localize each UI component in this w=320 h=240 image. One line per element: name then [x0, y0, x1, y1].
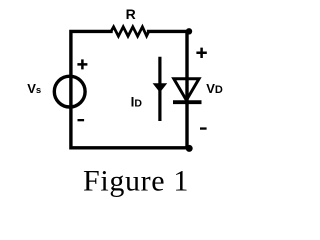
node junction dot bottom-right — [186, 145, 193, 152]
svg-text:ID: ID — [131, 95, 143, 110]
node junction dot top-right — [186, 28, 192, 34]
voltage source Vs circle — [54, 76, 85, 107]
current arrow ID line — [158, 57, 161, 121]
current arrow ID head — [153, 83, 168, 92]
svg-text:VD: VD — [206, 81, 223, 96]
diode D cathode bar — [173, 100, 202, 104]
svg-text:R: R — [126, 6, 136, 22]
minus sign for VD polarity — [200, 127, 207, 129]
plus sign for Vs polarity — [77, 59, 87, 69]
resistor R zigzag body — [111, 27, 149, 36]
svg-text:Vs: Vs — [27, 81, 41, 96]
svg-text:Figure 1: Figure 1 — [83, 164, 189, 197]
minus sign for Vs polarity — [78, 119, 85, 121]
plus sign for VD polarity — [196, 48, 206, 58]
wire: outer circuit loop (left, bottom, right, top segments with gap for resistor) — [71, 31, 187, 147]
diode D triangle (anode) — [174, 79, 199, 100]
